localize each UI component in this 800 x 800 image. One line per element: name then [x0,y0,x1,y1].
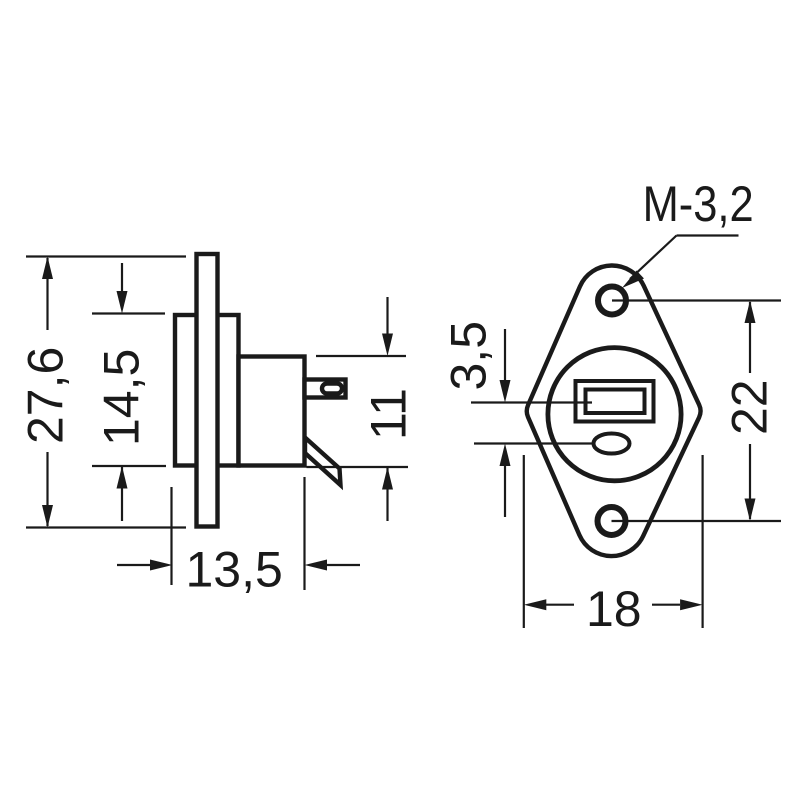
front view: bottom mounting hole M-3,2 [598,507,626,535]
dimension 22 extension lines from hole centers [612,301,782,522]
dimension label 18 [586,581,642,637]
side view: bent solder pin [305,438,341,486]
dimension 22 dimension line with arrows [745,301,756,522]
dimension label 3,5 [441,321,497,391]
dimension 14,5 extension lines [92,314,166,467]
front view: diamond flange outline [527,265,701,556]
side view: mounting flange plate [197,254,218,527]
svg-text:3,5: 3,5 [441,321,497,391]
dimension 11 arrows [382,297,393,521]
side view: connector body [175,315,239,466]
front view: top mounting hole M-3,2 [598,287,626,315]
svg-text:13,5: 13,5 [186,542,283,598]
front view: oval switch hole [594,434,630,454]
svg-text:14,5: 14,5 [94,349,150,446]
front view: rectangular jack opening (double outline) [576,381,654,422]
dimension label 22 [722,379,778,435]
dimension 18 extension lines [524,455,703,628]
svg-text:11: 11 [361,388,417,440]
dimension 14,5 arrows [117,263,128,521]
front view: round body circle [548,348,681,481]
side view: solder lug pin with slot [305,380,346,398]
dimension 18 arrows [524,599,703,610]
leader line for label M-3,2 [622,236,739,289]
dimension 3,5 leader lines [471,403,595,444]
svg-text:22: 22 [722,379,778,435]
side view: rear bushing block [239,357,305,466]
dimension 13,5 arrows [117,560,360,571]
dimension label 11 [361,388,417,440]
dimension 3,5 arrows [500,329,511,517]
dimension label 14,5 [94,349,150,446]
dimension label 27,6 [18,347,74,444]
dimension 27,6 extension lines [26,257,186,528]
svg-text:27,6: 27,6 [18,347,74,444]
svg-text:M-3,2: M-3,2 [643,176,754,232]
label M-3,2 [643,176,754,232]
dimension 27,6 dimension line with arrows [42,257,53,528]
dimension 11 extension lines [307,356,409,467]
dimension label 13,5 [186,542,283,598]
svg-text:18: 18 [586,581,642,637]
dimension 13,5 extension lines [172,477,305,590]
